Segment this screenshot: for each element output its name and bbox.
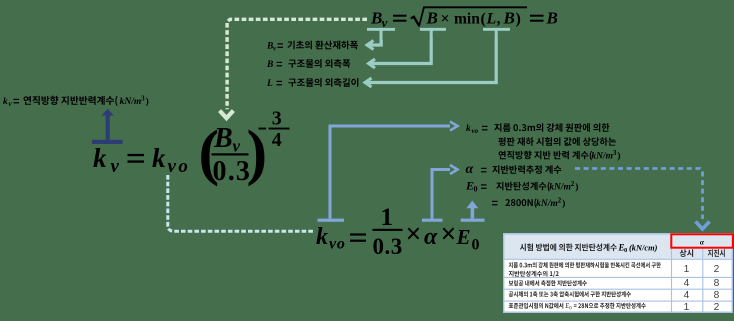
label B = structure outer width: [266, 59, 350, 70]
svg-text:(kN/cm): (kN/cm): [629, 243, 658, 252]
svg-text:3: 3: [272, 107, 282, 129]
text alpha description: [466, 162, 562, 177]
svg-text:B: B: [426, 9, 438, 28]
svg-text:4: 4: [684, 278, 690, 289]
svg-text:k: k: [316, 224, 328, 250]
text kvo description line2: [498, 137, 616, 146]
connector kvo to its description: [318, 122, 458, 222]
svg-text:k: k: [3, 97, 8, 107]
svg-text:2: 2: [571, 180, 575, 188]
svg-text:L: L: [266, 79, 273, 89]
svg-text:v: v: [382, 15, 388, 30]
svg-text:α: α: [424, 224, 438, 250]
svg-text:vo: vo: [472, 127, 479, 135]
svg-text:v: v: [233, 137, 241, 156]
svg-text:v: v: [111, 156, 120, 177]
svg-text:3: 3: [613, 149, 617, 157]
leader to label L: [365, 39, 497, 83]
svg-text:B: B: [503, 9, 515, 28]
svg-text:L: L: [486, 11, 497, 28]
svg-text:×: ×: [406, 219, 422, 250]
svg-text:,: ,: [497, 11, 501, 28]
leader to label Bv: [367, 40, 382, 45]
table row1 values: [684, 264, 720, 275]
table header jijinsi: [708, 249, 725, 257]
connector alpha to its description: [422, 165, 458, 222]
svg-text:B: B: [546, 9, 558, 28]
anchor tick under (L,B): [483, 28, 510, 40]
svg-text:kN/m: kN/m: [120, 97, 142, 107]
svg-text:×: ×: [441, 11, 450, 28]
connector E0 up arrow: [461, 201, 485, 222]
svg-text:vo: vo: [329, 236, 346, 253]
label kv = vertical subgrade reaction coefficient: [3, 94, 149, 108]
svg-text:3: 3: [141, 94, 145, 102]
svg-text:0: 0: [569, 305, 572, 311]
svg-text:1: 1: [381, 204, 394, 231]
svg-text:E: E: [564, 303, 569, 310]
svg-text:0.3: 0.3: [373, 234, 403, 259]
formula kv = kvo (Bv/0.3)^(-3/4): [93, 107, 290, 187]
svg-text:): ): [562, 198, 565, 209]
formula kvo = 1/0.3 x alpha x E0: [316, 204, 480, 259]
text E0 = 2800N: [492, 196, 565, 209]
svg-text:B: B: [213, 123, 233, 154]
svg-text:4: 4: [684, 290, 690, 301]
table header sangsi: [680, 249, 694, 257]
svg-text:×: ×: [441, 219, 457, 250]
text kvo description line1: [466, 123, 610, 135]
svg-text:k: k: [93, 143, 107, 173]
red highlight around alpha cell: [671, 234, 733, 247]
table of E0 test methods: [503, 233, 733, 313]
table row4 text: [509, 303, 646, 312]
svg-text:4: 4: [272, 129, 282, 151]
label L = structure outer length: [266, 78, 358, 89]
dashed leader from top Bv down to fraction Bv: [220, 19, 367, 118]
svg-text:2: 2: [558, 196, 562, 204]
arrow up to kv label: [92, 109, 123, 144]
svg-text:1: 1: [684, 302, 690, 313]
dashed leader from kvo to bottom formula: [168, 175, 315, 231]
anchor tick under B: [420, 28, 446, 40]
svg-text:2: 2: [714, 302, 720, 313]
table row1 text: [509, 262, 661, 277]
svg-text:kN/m: kN/m: [536, 199, 558, 209]
text kvo description line3: [499, 149, 621, 162]
svg-text:kN/m: kN/m: [591, 152, 613, 162]
table header cell text: [520, 242, 658, 254]
svg-text:α: α: [466, 162, 474, 177]
svg-text:min: min: [454, 11, 480, 28]
svg-text:1: 1: [684, 264, 690, 275]
text E0 description: [465, 179, 578, 194]
svg-text:0: 0: [474, 185, 478, 194]
svg-text:): ): [516, 11, 521, 28]
svg-text:8: 8: [714, 278, 720, 289]
svg-text:k: k: [152, 143, 166, 173]
svg-text:B: B: [266, 60, 273, 70]
svg-text:0: 0: [472, 237, 480, 254]
svg-text:): ): [146, 96, 149, 107]
svg-text:vo: vo: [168, 156, 191, 177]
table row2 values: [684, 278, 720, 289]
svg-text:0.3: 0.3: [213, 156, 252, 187]
table row2 text: [509, 280, 587, 286]
svg-text:E: E: [456, 225, 471, 249]
formula Bv = sqrt(B x min(L,B)) = B: [370, 6, 558, 30]
leader to label B: [368, 39, 431, 64]
svg-text:B: B: [370, 9, 382, 28]
svg-text:k: k: [466, 124, 471, 134]
svg-text:(: (: [481, 11, 486, 28]
table row3 values: [684, 290, 720, 301]
anchor tick under Bv: [367, 28, 395, 44]
label Bv = foundation equivalent width: [266, 41, 358, 53]
svg-text:8: 8: [714, 290, 720, 301]
dashed leader from alpha to table: [575, 169, 710, 230]
svg-text:): ): [575, 182, 578, 193]
svg-text:kN/m: kN/m: [549, 183, 571, 193]
svg-text:0: 0: [624, 247, 627, 254]
table row4 values: [684, 302, 720, 313]
table row3 text: [509, 291, 631, 297]
svg-text:2: 2: [714, 264, 720, 275]
svg-text:): ): [617, 151, 620, 162]
